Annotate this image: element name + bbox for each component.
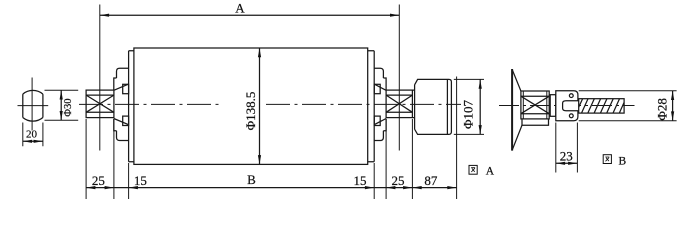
svg-text:25: 25 [392,173,405,188]
arrows: 25 left [86,186,95,189]
svg-text:Φ107: Φ107 [461,100,476,130]
hub right bottom profile [374,119,386,141]
A extension line right [398,5,400,151]
cone weld right top [374,84,386,90]
svg-text:B: B [619,156,627,168]
clevis pin holes [569,94,573,98]
drum end cap right [373,51,375,162]
svg-text:20: 20 [26,128,38,140]
svg-text:Φ30: Φ30 [63,99,74,117]
seal ring left bottom [123,116,129,125]
clevis slot [563,101,579,111]
seal ring right bottom [374,116,380,125]
arrows: B [129,186,138,189]
svg-text:23: 23 [560,148,573,163]
cone weld left top [114,84,129,90]
svg-text:15: 15 [354,173,367,188]
pulley cap line [446,79,448,134]
svg-text:A: A [235,1,245,16]
mounting flange plate [511,69,513,151]
shaft end outline (circle D30 with two flats, width 20) [23,90,43,121]
dimension D28 line [672,91,674,121]
glyph tu (Chinese) of fig A drawn manually [469,165,477,174]
svg-text:A: A [486,165,495,177]
arrows: 87 [412,186,421,189]
arrows: 25 right [386,186,395,189]
horizontal centerline of end view [18,105,49,107]
clevis body [556,91,578,121]
washer [550,95,556,117]
bearing tray [522,119,549,125]
drive pulley D107 [415,79,452,134]
dimension 20 extension lines [23,123,43,147]
hub right top profile [374,68,386,90]
svg-text:B: B [247,172,256,187]
dimension D30 line [60,90,62,120]
main centerline [79,103,223,105]
A extension line left [99,5,101,151]
cone top [512,69,521,91]
dimension D107 extension lines [454,79,484,134]
glyph tu (Chinese) of fig B drawn manually [603,155,611,164]
cone weld left bottom [114,119,129,125]
dimension D28 extension lines [579,91,677,121]
bearing right housing stub [412,90,414,118]
bearing left (box with X) [86,90,114,118]
svg-text:87: 87 [424,173,438,188]
svg-text:25: 25 [92,173,105,188]
cone bottom [512,125,522,150]
hub left top profile [114,68,129,90]
drum shell [134,48,368,164]
svg-text:Φ28: Φ28 [655,98,670,121]
A dimension line [100,14,400,16]
dimension 20 line [23,140,43,142]
fig B bearing (box with X) [521,91,549,119]
rod hatching [579,99,624,113]
dimension D107 line [479,79,481,134]
hub left bottom profile [114,119,129,141]
svg-text:15: 15 [134,173,147,188]
extension lines [86,77,457,200]
dimension D30 extension lines [45,90,79,120]
seal ring right top [374,84,380,93]
fig B centerline [499,105,635,107]
seal ring left top [123,84,129,93]
chain dimension line [86,187,457,189]
svg-text:Φ138.5: Φ138.5 [243,92,258,131]
drum end cap left [128,51,130,162]
vertical centerline of end view [31,78,33,131]
threaded rod [579,99,624,113]
dimension 23 line [556,162,578,164]
dimension 23 extension lines [556,123,578,173]
bearing right (box with X) [386,90,412,118]
cone weld right bottom [374,119,386,125]
drum lip right [368,51,375,162]
dimension D138.5 line [259,48,261,164]
drum lip left [129,51,134,162]
